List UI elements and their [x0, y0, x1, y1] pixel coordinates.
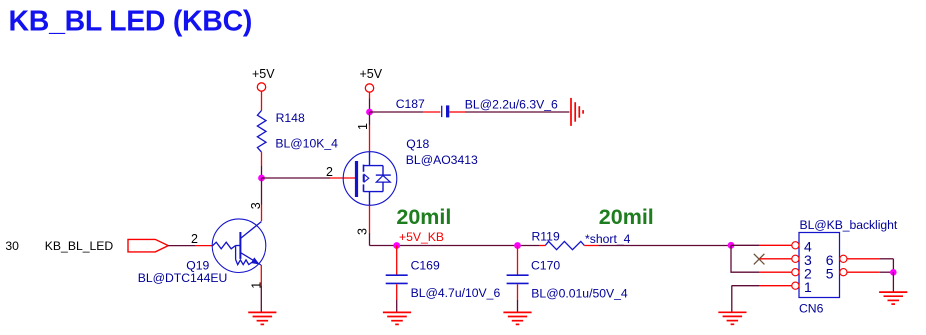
- pin 4: [792, 242, 799, 249]
- node junction J3 (rail / C169): [393, 242, 400, 249]
- pin 2: [792, 269, 799, 276]
- svg-text:3: 3: [249, 202, 263, 209]
- pin 1: [792, 282, 799, 289]
- svg-text:20mil: 20mil: [396, 205, 451, 229]
- resistor R119: [532, 229, 631, 249]
- power +5V symbol (left, feeding R148): [252, 67, 275, 110]
- pin 5: [840, 269, 847, 276]
- svg-text:1: 1: [356, 123, 370, 130]
- svg-text:3: 3: [356, 228, 370, 235]
- svg-text:BL@0.01u/50V_4: BL@0.01u/50V_4: [531, 287, 628, 301]
- wire J2 to C187: [370, 111, 424, 113]
- svg-text:BL@KB_backlight: BL@KB_backlight: [800, 218, 898, 232]
- svg-text:+5V: +5V: [360, 67, 383, 81]
- wire CN6 pin6 to right drop: [847, 258, 880, 260]
- svg-text:KB_BL_LED: KB_BL_LED: [45, 239, 114, 253]
- ground (right of CN6): [879, 292, 907, 304]
- pin wire CN6 pin3: [760, 258, 792, 260]
- wire C187 to ground: [449, 111, 465, 113]
- wire J5 down and to CN6 pin2: [731, 245, 759, 272]
- svg-text:BL@DTC144EU: BL@DTC144EU: [138, 271, 228, 285]
- capacitor C169: [386, 246, 501, 313]
- power +5V symbol (right, feeding Q18/C187): [360, 67, 383, 112]
- svg-text:Q18: Q18: [406, 137, 429, 151]
- wire CN6 pin1 to ground: [732, 285, 760, 287]
- node junction J5 (rail / CN6 pin2 branch): [728, 242, 735, 249]
- ground (right of C187, rotated): [571, 98, 583, 126]
- svg-text:BL@2.2u/6.3V_6: BL@2.2u/6.3V_6: [465, 97, 558, 111]
- capacitor C187: [396, 97, 558, 117]
- connector CN6: [792, 218, 898, 316]
- wire J5 to CN6 pin4: [731, 244, 759, 246]
- ground (under C170): [503, 312, 531, 324]
- transistor Q18 (P-MOSFET): [343, 152, 397, 206]
- svg-text:KB_BL LED (KBC): KB_BL LED (KBC): [9, 6, 253, 38]
- wire Q19 emitter to ground: [260, 265, 262, 286]
- svg-text:Q19: Q19: [186, 258, 209, 272]
- svg-text:C187: C187: [396, 97, 425, 111]
- node junction J6: [890, 269, 897, 276]
- svg-text:2: 2: [326, 165, 333, 179]
- svg-text:5: 5: [826, 265, 834, 281]
- wire port to Q19 base: [168, 245, 195, 247]
- svg-text:R148: R148: [276, 111, 305, 125]
- svg-text:C169: C169: [411, 259, 440, 273]
- svg-text:BL@10K_4: BL@10K_4: [275, 136, 338, 150]
- svg-text:BL@AO3413: BL@AO3413: [406, 153, 478, 167]
- svg-text:CN6: CN6: [799, 302, 824, 316]
- wire R119 to CN6: [599, 245, 732, 247]
- node junction J1 (R148 / Q18 gate / Q19 collector): [258, 175, 265, 182]
- svg-text:*short_4: *short_4: [585, 232, 631, 246]
- capacitor C170: [507, 246, 628, 313]
- svg-text:1: 1: [249, 282, 263, 289]
- svg-text:2: 2: [191, 232, 198, 246]
- svg-text:BL@4.7u/10V_6: BL@4.7u/10V_6: [411, 286, 501, 300]
- ground (under CN6 pin1): [718, 312, 746, 324]
- svg-text:+5V_KB: +5V_KB: [399, 230, 444, 244]
- no-connect X (CN6 pin3): [754, 254, 765, 265]
- transistor Q19 (digital NPN DTC144EU): [212, 219, 266, 273]
- wire CN6 pin5 to right drop: [847, 271, 880, 273]
- svg-text:C170: C170: [531, 259, 560, 273]
- wire Q18 source down to +5V_KB rail: [369, 205, 371, 233]
- resistor R148: [257, 111, 338, 179]
- ground (under Q19): [248, 312, 276, 324]
- wire J2 down to Q18: [369, 112, 371, 125]
- wire J6 down to ground: [892, 272, 894, 292]
- svg-text:20mil: 20mil: [599, 205, 654, 229]
- pin 3: [792, 255, 799, 262]
- svg-text:30: 30: [5, 239, 19, 253]
- wire J1 down to Q19 collector: [261, 178, 263, 205]
- wire J1 to Q18 gate: [262, 177, 331, 179]
- wire +5V_KB rail: [370, 245, 540, 247]
- node junction J2 (+5V / C187 / Q18 drain): [366, 109, 373, 116]
- svg-text:+5V: +5V: [252, 67, 275, 81]
- node junction J4 (rail / C170): [514, 242, 521, 249]
- svg-text:R119: R119: [532, 229, 560, 243]
- pin 6: [840, 255, 847, 262]
- ground (under C169): [383, 312, 411, 324]
- port symbol KB_BL_LED: [128, 239, 168, 252]
- svg-text:1: 1: [804, 279, 812, 295]
